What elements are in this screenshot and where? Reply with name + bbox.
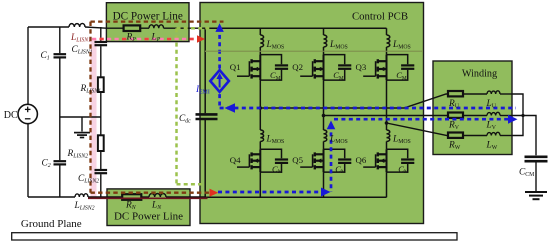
svg-text:Cdc: Cdc <box>179 114 191 125</box>
svg-text:C2: C2 <box>42 158 51 169</box>
svg-text:DC: DC <box>4 110 18 121</box>
svg-text:Q3: Q3 <box>356 62 367 72</box>
svg-text:DC Power Line: DC Power Line <box>113 10 183 22</box>
svg-text:Q1: Q1 <box>230 62 241 72</box>
svg-text:RLISN2: RLISN2 <box>67 149 89 160</box>
svg-text:Winding: Winding <box>462 69 497 80</box>
svg-text:Ground Plane: Ground Plane <box>21 218 82 230</box>
svg-text:CCM: CCM <box>519 167 534 178</box>
svg-text:LLISN1: LLISN1 <box>70 33 91 44</box>
svg-text:Q5: Q5 <box>292 155 303 165</box>
svg-text:Control PCB: Control PCB <box>352 10 408 22</box>
svg-text:C1: C1 <box>41 51 50 62</box>
svg-text:LLISN2: LLISN2 <box>74 201 95 212</box>
svg-text:DC Power Line: DC Power Line <box>114 210 183 222</box>
svg-text:Q4: Q4 <box>230 155 241 165</box>
svg-text:Q6: Q6 <box>356 155 367 165</box>
svg-text:Q2: Q2 <box>292 62 303 72</box>
